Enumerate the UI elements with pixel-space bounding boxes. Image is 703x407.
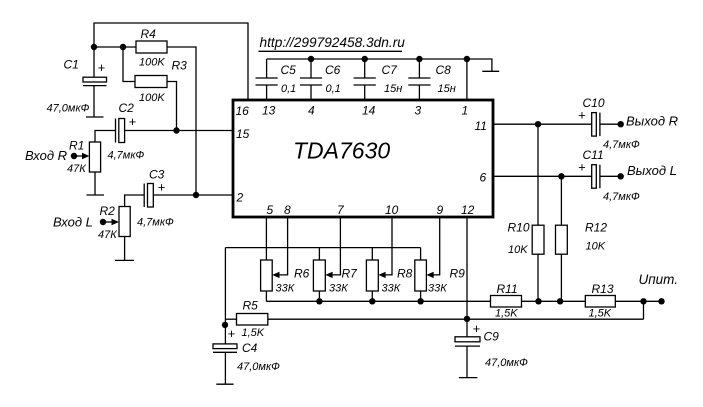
svg-text:R6: R6 <box>294 267 310 281</box>
svg-text:C11: C11 <box>583 148 604 162</box>
ground under C4 <box>216 383 233 385</box>
svg-text:8: 8 <box>284 203 291 217</box>
svg-text:33К: 33К <box>329 283 348 295</box>
svg-text:1,5K: 1,5K <box>495 308 518 320</box>
resistor R13 1,5K <box>585 282 615 320</box>
node junction supply drop <box>640 298 646 304</box>
svg-text:0,1: 0,1 <box>281 83 296 95</box>
svg-text:3: 3 <box>415 104 422 118</box>
terminal Вход L <box>53 215 106 230</box>
wire R5 right to C9 node and supply drop <box>268 318 644 320</box>
svg-text:Uпит.: Uпит. <box>639 272 679 287</box>
node junction C9 top <box>464 316 470 322</box>
wire bottom line R5 node to supply <box>225 318 236 320</box>
wire pin 10 to R8 wiper <box>378 217 392 278</box>
node junction R3 on pin 15 line <box>173 127 179 133</box>
terminal Выход L <box>618 163 677 180</box>
resistor R1 47К potentiometer <box>67 139 101 176</box>
node junction C6 on rail <box>308 56 314 62</box>
svg-text:http://299792458.3dn.ru: http://299792458.3dn.ru <box>260 35 406 50</box>
node junction R9 bottom <box>417 298 423 304</box>
terminal Uпит. <box>639 272 679 304</box>
wire pin 12 down to C9 node <box>466 217 468 319</box>
svg-text:47К: 47К <box>67 163 86 175</box>
resistor R11 1,5K <box>491 282 522 320</box>
svg-text:C2: C2 <box>119 101 135 115</box>
svg-text:R8: R8 <box>397 267 413 281</box>
wire R6 bottom to rail <box>265 291 267 301</box>
wire pin 5 to R6 top <box>265 217 267 260</box>
wire rail left drop to R5 node <box>224 248 226 320</box>
capacitor C2 4,7мкФ <box>108 101 145 162</box>
node junction C7 on rail <box>362 56 368 62</box>
svg-text:4,7мкФ: 4,7мкФ <box>108 150 145 162</box>
node junction R5/C4 <box>222 322 228 328</box>
wire pots top rail <box>225 247 420 249</box>
resistor R5 1,5K <box>237 299 268 340</box>
wire R3 branch from junction <box>123 47 135 82</box>
node junction R8 bottom <box>369 298 375 304</box>
svg-text:+: + <box>578 108 586 123</box>
svg-text:R9: R9 <box>450 267 466 281</box>
svg-text:5: 5 <box>267 203 274 217</box>
svg-text:R11: R11 <box>497 282 518 296</box>
svg-text:C6: C6 <box>325 63 341 77</box>
svg-text:47,0мкФ: 47,0мкФ <box>237 361 280 373</box>
wire top bypass rail <box>267 59 492 71</box>
svg-text:C9: C9 <box>484 330 500 344</box>
svg-text:C7: C7 <box>382 63 399 77</box>
svg-text:1,5K: 1,5K <box>242 327 265 339</box>
wire R11 to R13 <box>522 300 586 302</box>
svg-text:2: 2 <box>236 191 244 205</box>
svg-text:6: 6 <box>480 171 487 185</box>
resistor R9 33К potentiometer <box>415 260 465 295</box>
wire top-left net: C1 top to pin 16 <box>94 23 248 100</box>
capacitor C6 0,1 <box>300 59 341 100</box>
svg-text:+: + <box>473 321 481 336</box>
resistor R2 47К potentiometer <box>98 204 130 241</box>
wire R10 bottom lead <box>537 254 539 301</box>
node URL label <box>259 35 406 51</box>
svg-text:Вход L: Вход L <box>53 215 93 230</box>
wire rail stub to R7 top <box>318 248 320 260</box>
svg-text:Вход R: Вход R <box>25 148 67 163</box>
node junction at C1 top <box>91 44 97 50</box>
capacitor C8 15н <box>408 59 455 100</box>
svg-text:R2: R2 <box>100 204 116 218</box>
resistor R6 33К potentiometer <box>261 260 310 295</box>
node junction R12 top <box>558 173 564 179</box>
resistor R8 33К potentiometer <box>366 260 412 295</box>
node junction R4 on pin 2 line <box>193 192 199 198</box>
node junction R12 bottom <box>557 298 563 304</box>
wire pin 6 line to C11 <box>493 175 592 177</box>
node junction at R4/R3 branch <box>120 44 126 50</box>
svg-text:1,5K: 1,5K <box>589 308 612 320</box>
svg-text:33К: 33К <box>276 283 295 295</box>
capacitor C10 4,7мкФ <box>578 96 640 151</box>
svg-text:9: 9 <box>437 203 444 217</box>
svg-text:R13: R13 <box>592 282 614 296</box>
op-amp U1 TDA7630 IC body <box>233 100 493 217</box>
capacitor C5 0,1 <box>256 59 297 100</box>
wire pots bottom rail to R11 <box>266 300 490 302</box>
wire pin 9 to R9 wiper <box>426 217 439 278</box>
svg-text:100K: 100K <box>139 57 165 69</box>
capacitor C7 15н <box>354 59 403 100</box>
ground under C9 <box>459 377 478 379</box>
svg-text:47К: 47К <box>98 229 117 241</box>
resistor R10 10K <box>508 221 545 257</box>
wire rail right drop to R9 top <box>420 248 422 260</box>
terminal Вход R <box>25 148 77 163</box>
svg-text:+: + <box>578 160 586 175</box>
capacitor C4 47,0мкФ <box>213 319 280 384</box>
svg-text:C5: C5 <box>281 63 297 77</box>
wire R2 bottom to ground <box>124 237 126 261</box>
svg-text:15: 15 <box>236 127 250 141</box>
svg-text:10: 10 <box>385 203 399 217</box>
node junction R10 top <box>535 121 541 127</box>
wire pin 8 to R6 wiper <box>272 217 287 278</box>
wire C2 to pin 15 <box>125 130 233 132</box>
svg-text:15н: 15н <box>438 83 456 95</box>
wire C10 to output R terminal <box>600 123 621 125</box>
svg-text:14: 14 <box>362 104 376 118</box>
resistor R7 33К potentiometer <box>313 260 358 295</box>
wire R1 top to C2 <box>95 131 116 143</box>
wire R10 top lead <box>537 124 539 225</box>
ground at top rail <box>482 70 499 72</box>
wire pin 11 line to C10 <box>493 123 592 125</box>
wire R9 bottom to rail <box>420 291 422 301</box>
svg-text:R5: R5 <box>243 299 259 313</box>
capacitor C3 4,7мкФ <box>137 168 174 229</box>
svg-text:R10: R10 <box>508 221 530 235</box>
svg-text:R3: R3 <box>172 59 188 73</box>
svg-text:10K: 10K <box>586 241 606 253</box>
svg-text:Выход R: Выход R <box>626 114 678 129</box>
wire R12 bottom lead <box>560 254 562 301</box>
svg-text:4: 4 <box>308 104 315 118</box>
wire C1 top to R4 left <box>94 46 136 48</box>
svg-text:Выход L: Выход L <box>627 163 677 178</box>
capacitor C11 4,7мкФ <box>578 148 640 203</box>
svg-text:10K: 10K <box>508 244 528 256</box>
resistor R3 100K <box>135 59 187 105</box>
svg-text:R1: R1 <box>69 139 84 153</box>
wire R3 right lead down to pin 15 line <box>167 82 177 131</box>
svg-text:C4: C4 <box>242 341 258 355</box>
wire R7 bottom to rail <box>318 291 320 301</box>
wire pin 7 to R7 wiper <box>325 217 340 278</box>
svg-text:4,7мкФ: 4,7мкФ <box>603 191 640 203</box>
terminal Выход R <box>618 114 679 129</box>
wire C3 to pin 2 <box>153 194 233 196</box>
svg-text:+: + <box>158 180 166 195</box>
svg-text:1: 1 <box>462 104 469 118</box>
ground under C1 <box>86 116 104 118</box>
svg-text:13: 13 <box>262 104 276 118</box>
capacitor C1 47,0мкФ <box>47 47 107 117</box>
ground under R2 <box>115 259 134 261</box>
wire R4 right lead down to pin 2 line <box>167 47 196 195</box>
svg-text:+: + <box>98 60 106 75</box>
svg-text:C8: C8 <box>436 63 452 77</box>
svg-text:C10: C10 <box>583 96 605 110</box>
wire input R arrow to R1 wiper <box>74 153 89 159</box>
wire supply drop to bottom line <box>643 301 645 319</box>
svg-text:4,7мкФ: 4,7мкФ <box>137 217 174 229</box>
svg-text:R12: R12 <box>585 221 607 235</box>
resistor R12 10K <box>556 221 608 255</box>
node junction pin1 on rail <box>464 56 470 62</box>
wire R13 to supply terminal <box>615 300 661 302</box>
svg-text:47,0мкФ: 47,0мкФ <box>47 103 90 115</box>
svg-text:TDA7630: TDA7630 <box>293 138 390 164</box>
svg-text:C1: C1 <box>64 58 79 72</box>
node junction R10 bottom <box>535 298 541 304</box>
ground under R1 <box>87 194 105 196</box>
node junction C8 on rail <box>416 56 422 62</box>
svg-text:R4: R4 <box>141 27 157 41</box>
svg-text:12: 12 <box>461 203 475 217</box>
svg-text:33К: 33К <box>428 283 447 295</box>
svg-text:15н: 15н <box>384 83 402 95</box>
svg-text:4,7мкФ: 4,7мкФ <box>603 139 640 151</box>
svg-text:47,0мкФ: 47,0мкФ <box>485 357 528 369</box>
wire R2 top to C3 <box>125 195 145 207</box>
svg-text:16: 16 <box>236 104 250 118</box>
wire pin 1 to rail <box>466 59 468 100</box>
svg-text:+: + <box>228 326 236 341</box>
svg-text:0,1: 0,1 <box>326 83 341 95</box>
wire rail stub to R8 top <box>371 248 373 260</box>
resistor R4 100K <box>136 27 167 69</box>
capacitor C9 47,0мкФ <box>455 319 528 378</box>
svg-text:33К: 33К <box>382 283 401 295</box>
wire C11 to output L terminal <box>600 175 621 177</box>
wire input L arrow to R2 wiper <box>103 219 119 225</box>
wire R1 bottom to ground <box>94 172 96 195</box>
svg-text:100K: 100K <box>139 92 165 104</box>
svg-text:R7: R7 <box>342 267 359 281</box>
node junction R7 bottom <box>316 298 322 304</box>
wire R12 top lead <box>560 176 562 225</box>
wire R8 bottom to rail <box>371 291 373 301</box>
svg-text:+: + <box>129 114 137 129</box>
svg-text:11: 11 <box>475 119 487 133</box>
